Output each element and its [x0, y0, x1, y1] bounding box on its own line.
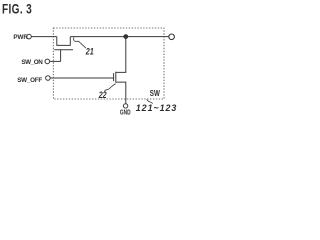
leader line to label 21	[74, 37, 86, 48]
svg-text:SW_OFF: SW_OFF	[17, 77, 42, 84]
label 21	[85, 45, 94, 56]
output terminal (right)	[169, 34, 175, 40]
transistor 22 source lead to GND	[116, 82, 126, 104]
GND terminal	[123, 104, 127, 108]
label 22	[98, 89, 107, 100]
transistor 22 gate bar	[113, 73, 115, 81]
leader line to label 121~123	[147, 99, 153, 103]
svg-text:121~123: 121~123	[136, 103, 177, 113]
svg-text:SW_ON: SW_ON	[21, 59, 43, 66]
junction node dot	[123, 34, 128, 39]
transistor 21 gate lead	[60, 50, 62, 62]
transistor 22 drain lead to node	[116, 37, 126, 73]
svg-text:GND: GND	[120, 110, 131, 117]
wire SW_ON to Q21 gate	[50, 60, 61, 62]
dashed box (switch block 121~123)	[53, 28, 164, 99]
figure title FIG. 3	[2, 1, 32, 17]
svg-text:22: 22	[98, 89, 107, 100]
wire PWR to Q21 source	[31, 36, 57, 38]
transistor 22 channel bar	[115, 72, 117, 83]
leader line to label 22	[104, 84, 115, 92]
transistor 21 channel path (source lead, channel bar, drain lead)	[57, 37, 71, 46]
svg-text:SW: SW	[150, 91, 160, 99]
svg-text:FIG. 3: FIG. 3	[2, 1, 32, 17]
SW label	[150, 91, 160, 99]
SW_OFF terminal	[46, 76, 51, 81]
PWR terminal	[27, 34, 32, 39]
svg-text:PWR: PWR	[13, 34, 28, 41]
wire SW_OFF to Q22 gate	[50, 77, 113, 79]
SW_ON terminal	[45, 59, 50, 64]
main rail wire to output	[70, 36, 169, 38]
svg-text:21: 21	[85, 45, 94, 56]
GND label	[120, 110, 131, 117]
transistor 21 gate bar	[54, 49, 73, 51]
